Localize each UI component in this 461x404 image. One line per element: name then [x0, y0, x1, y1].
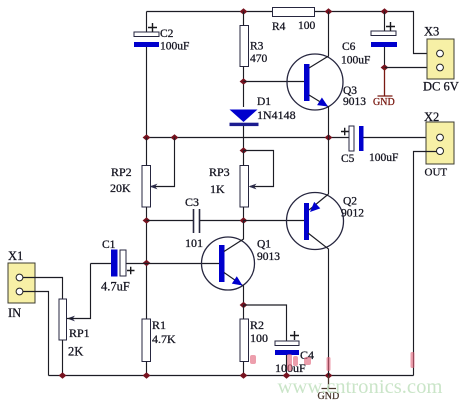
resistor R4 — [272, 8, 316, 34]
connector X2 — [424, 110, 454, 179]
svg-text:4.7uF: 4.7uF — [101, 280, 130, 294]
transistor Q1 — [202, 221, 281, 306]
node C1-Q1 base — [143, 260, 151, 267]
node C2-137 — [143, 134, 151, 141]
wire R2 bottom lead — [243, 362, 245, 376]
wire RP3 wiper loop — [244, 151, 274, 187]
svg-text:RP3: RP3 — [209, 165, 230, 179]
svg-text:100: 100 — [298, 20, 316, 32]
svg-text:470: 470 — [250, 53, 268, 65]
svg-text:100uF: 100uF — [341, 55, 370, 67]
svg-text:100uF: 100uF — [369, 152, 398, 164]
node R1-rail — [143, 372, 151, 379]
arrow RP2 wiper — [150, 184, 158, 190]
node R2-rail — [240, 372, 248, 379]
wire C5 right lead — [364, 137, 438, 139]
svg-text:RP2: RP2 — [111, 165, 132, 179]
wire X1 pin2 to rail — [23, 292, 49, 376]
node Q1 collector — [240, 217, 248, 224]
node rail-C6 — [381, 8, 389, 15]
svg-text:OUT: OUT — [425, 167, 448, 179]
svg-text:D1: D1 — [257, 96, 271, 108]
svg-text:R4: R4 — [272, 21, 286, 33]
node C4-rail — [283, 372, 291, 379]
svg-text:4.7K: 4.7K — [152, 332, 176, 346]
wire emitter to C4 — [244, 305, 287, 341]
connector X3 — [423, 25, 459, 94]
transistor Q3 — [287, 12, 366, 138]
node C3 left — [143, 217, 151, 224]
capacitor C1 — [101, 239, 135, 294]
potentiometer RP3 — [209, 165, 249, 207]
wire Q1 base — [147, 263, 220, 265]
wire C3 right lead — [200, 220, 244, 222]
wire top rail right — [315, 12, 438, 54]
svg-text:Q1: Q1 — [257, 239, 271, 251]
svg-text:R3: R3 — [250, 41, 264, 53]
node emitters-137 — [325, 134, 333, 141]
connector X1 — [8, 249, 35, 320]
svg-text:www.cntronics.com: www.cntronics.com — [278, 376, 443, 398]
wire Q3 base — [244, 81, 305, 83]
svg-text:X3: X3 — [424, 25, 439, 39]
capacitor C2 — [134, 23, 189, 53]
svg-text:2K: 2K — [68, 345, 83, 359]
wire Q2 base — [244, 220, 305, 222]
svg-text:9013: 9013 — [257, 251, 280, 263]
wire RP3 top lead — [243, 151, 245, 166]
node Q1 emitter — [240, 302, 248, 309]
capacitor C6 — [341, 22, 397, 67]
wire RP1 bottom lead — [62, 340, 64, 376]
arrow RP3 wiper — [249, 184, 257, 190]
wire RP2 top lead — [146, 138, 148, 166]
diode D1 — [230, 96, 296, 126]
svg-text:RP1: RP1 — [69, 326, 90, 340]
wire R3 to D1 — [243, 67, 245, 108]
wire C2 bottom lead — [146, 47, 148, 137]
wire C1 right lead — [127, 263, 147, 265]
node D1-RP3 — [240, 147, 248, 154]
watermark red fragments — [250, 352, 415, 371]
wire C2 top lead — [146, 12, 148, 33]
svg-text:GND: GND — [373, 97, 395, 108]
ground GND bottom — [318, 376, 340, 403]
node RP2 wiper-137 — [171, 134, 179, 141]
capacitor C4 — [275, 331, 314, 375]
svg-text:1N4148: 1N4148 — [257, 108, 296, 122]
svg-text:C5: C5 — [341, 153, 355, 165]
capacitor C5 — [341, 126, 398, 165]
ground GND top — [373, 68, 395, 109]
svg-text:9012: 9012 — [341, 208, 364, 220]
potentiometer RP1 — [59, 299, 90, 359]
node rail-R3 — [240, 8, 248, 15]
wire RP3 bottom lead — [243, 207, 245, 221]
node RP1-rail — [59, 372, 67, 379]
capacitor C3 — [185, 195, 203, 250]
node rail-Q3 — [325, 8, 333, 15]
wire X2 pin2 down — [414, 152, 437, 376]
node C6-X3 — [381, 64, 389, 71]
wire X1 pin1 to RP1 — [23, 278, 63, 300]
svg-text:100uF: 100uF — [160, 41, 189, 53]
svg-text:Q2: Q2 — [343, 196, 357, 208]
svg-text:9013: 9013 — [343, 96, 366, 108]
node R3-Q3 base — [240, 78, 248, 85]
svg-text:DC 6V: DC 6V — [423, 80, 459, 94]
svg-text:R1: R1 — [152, 318, 166, 332]
wire main horizontal 137 — [147, 137, 350, 139]
resistor R3 — [240, 26, 268, 67]
wire C4 bottom lead — [286, 355, 288, 376]
svg-text:1K: 1K — [210, 182, 225, 196]
resistor R1 — [142, 318, 176, 362]
wire bottom rail — [49, 375, 414, 377]
wire C1 left lead — [91, 263, 112, 265]
wire RP1 wiper to C1 — [67, 264, 91, 319]
wire C6 to X3 pin2 — [385, 67, 438, 69]
wire R1 bottom lead — [146, 362, 148, 376]
wire C3 left lead — [147, 220, 194, 222]
svg-text:C3: C3 — [185, 195, 199, 209]
wire Q3 emitter to Q2 emitter — [328, 138, 330, 195]
wire R3 top lead — [243, 12, 245, 26]
wire RP2 to R1 — [146, 207, 148, 319]
resistor R2 — [240, 318, 268, 362]
wire top rail left — [147, 11, 273, 13]
wire RP2 wiper loop — [151, 138, 175, 187]
svg-text:C1: C1 — [102, 239, 116, 251]
svg-text:C2: C2 — [160, 28, 174, 40]
wire C6 top lead — [384, 12, 386, 32]
wire D1 cathode lead — [243, 126, 245, 151]
wire C6 bottom lead — [384, 47, 386, 68]
svg-text:X2: X2 — [424, 110, 439, 124]
wire R2 top lead — [243, 305, 245, 319]
transistor Q2 — [287, 193, 365, 376]
svg-text:X1: X1 — [8, 249, 23, 263]
svg-text:R2: R2 — [250, 318, 264, 332]
potentiometer RP2 — [110, 165, 151, 207]
svg-text:100: 100 — [250, 331, 268, 345]
node Q2-rail — [325, 372, 333, 379]
svg-text:101: 101 — [185, 236, 203, 250]
svg-text:C6: C6 — [342, 41, 356, 53]
svg-text:20K: 20K — [110, 181, 131, 195]
arrow RP1 wiper — [67, 316, 75, 322]
svg-text:IN: IN — [8, 306, 21, 320]
